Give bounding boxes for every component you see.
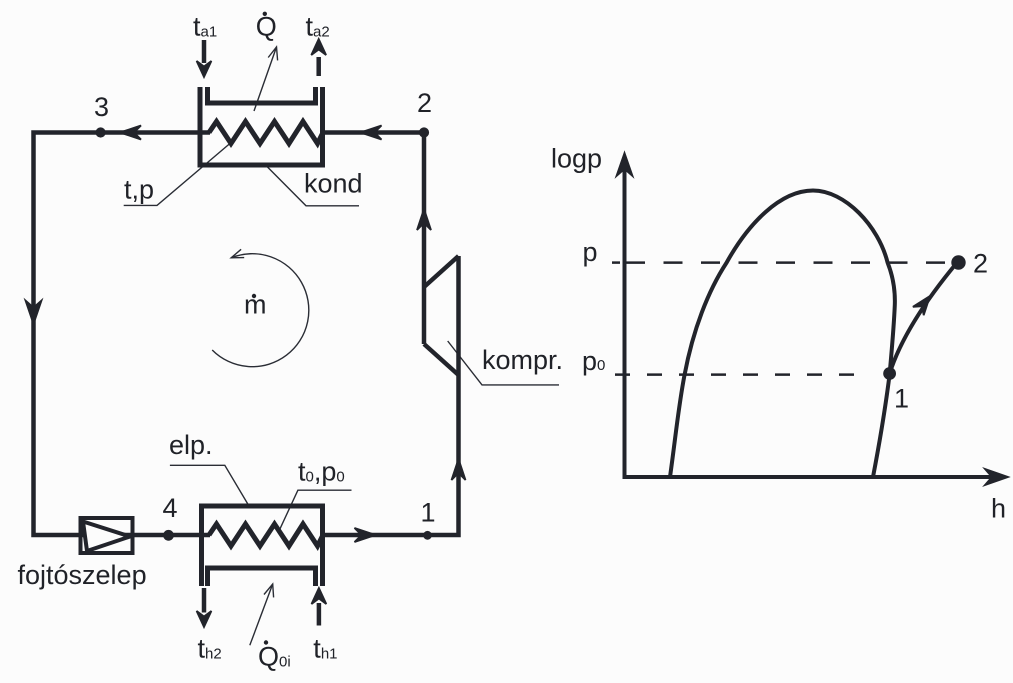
svg-text:1: 1	[421, 498, 436, 528]
svg-text:elp.: elp.	[169, 430, 213, 460]
svg-text:Q: Q	[256, 12, 277, 42]
svg-text:kompr.: kompr.	[482, 345, 563, 375]
svg-text:h: h	[991, 494, 1006, 524]
svg-text:2: 2	[973, 249, 988, 279]
svg-text:2: 2	[417, 88, 432, 118]
svg-text:3: 3	[94, 92, 109, 122]
svg-text:m: m	[244, 290, 267, 320]
svg-text:t,p: t,p	[124, 175, 154, 205]
svg-text:4: 4	[163, 493, 178, 523]
svg-text:1: 1	[894, 384, 909, 414]
svg-text:logp: logp	[551, 144, 602, 174]
svg-text:fojtószelep: fojtószelep	[18, 560, 147, 590]
svg-text:p: p	[583, 237, 598, 267]
svg-text:kond: kond	[304, 169, 363, 199]
